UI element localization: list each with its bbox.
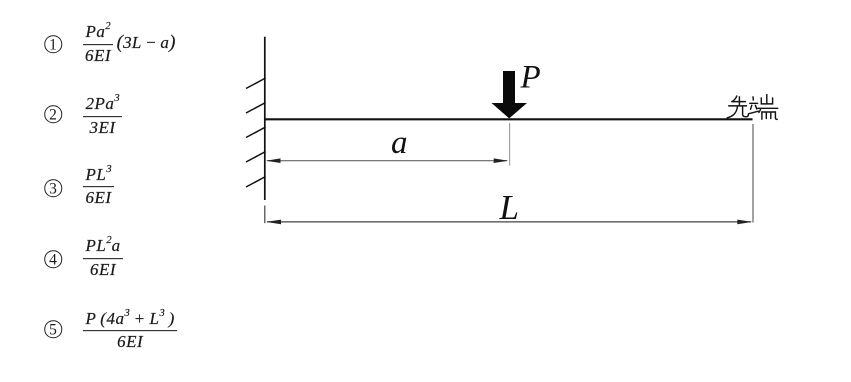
dimension a left arrowhead (266, 158, 281, 163)
option 3 circled number (44, 180, 62, 198)
dimension line L (267, 221, 751, 223)
dimension line a (267, 160, 507, 162)
wall hatch 2 (246, 103, 266, 114)
option 2 circled number (44, 106, 62, 124)
option 1 formula Pa^2/6EI (3L-a) (83, 22, 176, 64)
wall hatch 5 (246, 177, 266, 188)
fixed support wall line (264, 37, 266, 200)
option 5 formula P(4a^3+L^3)/6EI (83, 309, 177, 351)
label sentan (tip) kanji 端 (748, 95, 777, 120)
dimension L left arrowhead (266, 220, 281, 225)
wall hatch 3 (246, 127, 266, 138)
svg-text:P: P (520, 60, 541, 96)
L extension line left (264, 206, 266, 224)
L extension line right (752, 124, 754, 223)
dimension L right arrowhead (737, 220, 752, 225)
load arrow P head (492, 103, 528, 118)
option 4 formula PL^2a/6EI (83, 237, 123, 279)
svg-text:L: L (499, 188, 519, 227)
extension line under load point (509, 123, 511, 166)
option 2 formula 2Pa^3/3EI (83, 94, 122, 136)
svg-text:a: a (391, 125, 408, 161)
load arrow P shaft (503, 71, 515, 104)
beam (264, 118, 753, 120)
wall hatch 1 (246, 78, 266, 89)
option 5 circled number (44, 320, 62, 338)
dimension a right arrowhead (494, 158, 509, 163)
option 3 formula PL^3/6EI (83, 165, 114, 207)
label sentan (tip) kanji 先 (727, 96, 748, 118)
option 1 circled number (44, 35, 62, 53)
option 4 circled number (44, 250, 62, 268)
wall hatch 4 (246, 152, 266, 163)
